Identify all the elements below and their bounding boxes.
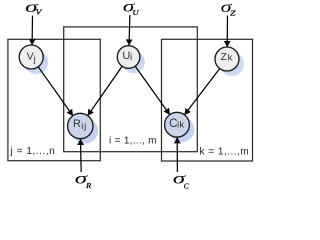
svg-text:Z: Z [221,51,228,63]
svg-text:i: i [130,52,132,63]
svg-text:V: V [36,9,44,17]
svg-text:C: C [184,182,190,191]
svg-text:j: j [33,54,36,65]
svg-text:k: k [228,53,233,64]
svg-text:V: V [27,51,34,63]
svg-text:i = 1,..., m: i = 1,..., m [109,135,157,146]
svg-text:ij: ij [81,121,87,132]
svg-text:k = 1,...,m: k = 1,...,m [200,147,250,158]
svg-text:Z: Z [230,10,237,18]
svg-text:R: R [73,118,81,130]
svg-text:R: R [85,182,92,190]
svg-text:U: U [133,8,140,17]
svg-text:j = 1,...,n: j = 1,...,n [10,146,56,157]
svg-text:ik: ik [177,120,185,131]
